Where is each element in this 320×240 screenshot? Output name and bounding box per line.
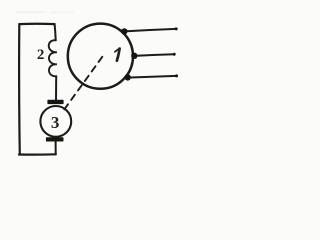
wire: top horizontal of field loop <box>19 23 54 26</box>
junction dot: phase A terminal on circle 1 <box>121 28 127 34</box>
generator machine 1: circle body <box>68 24 133 89</box>
wire end blob: phase C <box>175 74 178 77</box>
wire: right vertical, top corner down to coil <box>55 24 56 40</box>
wire: bottom horizontal of field loop <box>19 153 56 156</box>
label 1: generator designator (italic hand-drawn) <box>117 49 120 61</box>
wire: coil bottom down to exciter top brush <box>55 76 57 100</box>
exciter machine 3: circle body <box>40 106 71 137</box>
wire end blob: phase B <box>173 53 176 56</box>
inductor coil L, winding 2 <box>49 40 57 76</box>
wire: left vertical of field loop <box>18 24 21 154</box>
junction dot: phase B terminal on circle 1 <box>131 53 137 59</box>
brush block: top brush of exciter 3 <box>47 100 63 104</box>
svg-text:3: 3 <box>51 113 60 132</box>
wire end blob: phase A <box>175 27 178 30</box>
svg-text:2: 2 <box>37 47 45 63</box>
brush block: bottom brush of exciter 3 <box>46 137 64 141</box>
wire: exciter bottom brush down to bottom wire <box>55 141 57 154</box>
terminal wire: phase B (middle) <box>137 54 175 55</box>
junction dot: phase C terminal on circle 1 <box>125 74 131 80</box>
dashed shaft coupling between machine 3 and machine 1 <box>64 57 102 110</box>
terminal wire: phase C (bottom) <box>131 76 177 78</box>
faint print bleed-through smudge (top margin) <box>15 11 45 13</box>
terminal wire: phase A (top) <box>127 29 177 31</box>
